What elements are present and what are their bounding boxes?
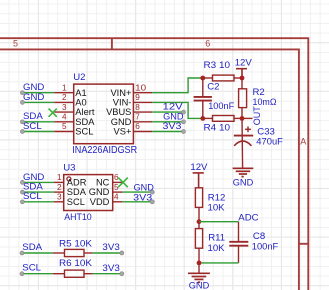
svg-text:R4 10: R4 10 — [204, 122, 231, 133]
U2 pin 9 VIN- — [133, 101, 152, 103]
ic U3 body — [64, 175, 113, 211]
svg-text:R5 10K: R5 10K — [59, 238, 93, 249]
svg-text:100nF: 100nF — [252, 241, 279, 252]
wire U3 left GND — [22, 181, 54, 183]
resistor R12 — [195, 188, 202, 222]
junction node R11 bottom / GND — [197, 261, 202, 266]
resistor R6 row — [22, 273, 53, 275]
svg-text:SDA: SDA — [67, 187, 87, 197]
svg-text:SCL: SCL — [23, 121, 42, 132]
svg-text:A: A — [300, 137, 306, 147]
wire U3 pin5 GND — [122, 191, 152, 193]
svg-text:R6 10K: R6 10K — [59, 258, 93, 269]
U3 pin 6 NC — [113, 181, 123, 183]
svg-text:9: 9 — [135, 93, 140, 102]
svg-text:AHT10: AHT10 — [64, 212, 92, 223]
svg-text:C2: C2 — [207, 82, 219, 93]
svg-text:U3: U3 — [63, 162, 75, 173]
svg-text:1: 1 — [57, 173, 62, 182]
junction node ADC — [197, 219, 202, 224]
wire C8 bottom to R11 bottom — [199, 262, 239, 264]
wire node ADC — [199, 221, 239, 223]
net flag OUT stub — [242, 117, 253, 119]
svg-text:10: 10 — [135, 83, 147, 92]
svg-text:2: 2 — [62, 93, 67, 102]
resistor R2 shunt — [239, 78, 247, 118]
svg-text:A0: A0 — [75, 98, 86, 108]
wire VIN+ pin10 to R3 — [152, 78, 203, 93]
junction node R2 bottom / R4 right / C33 / OUT — [240, 116, 245, 121]
svg-text:12V: 12V — [190, 162, 208, 173]
ground symbol GND (below C33) — [233, 168, 254, 176]
svg-text:4: 4 — [114, 193, 119, 202]
U2 pin 6 VS+ — [133, 131, 152, 133]
svg-text:3V3: 3V3 — [102, 263, 119, 274]
svg-text:3V3: 3V3 — [163, 121, 182, 132]
svg-text:SCL: SCL — [67, 197, 85, 207]
U3 pin 3 SCL — [54, 201, 64, 203]
U2 pin 10 VIN+ — [133, 92, 152, 94]
svg-text:12V: 12V — [235, 58, 253, 69]
svg-text:5: 5 — [114, 183, 119, 192]
wire U2 right 3V3 — [152, 131, 183, 133]
svg-text:6: 6 — [135, 122, 140, 131]
no-connect X on U3 pin 6 NC — [118, 178, 128, 188]
svg-text:VIN-: VIN- — [113, 98, 132, 108]
svg-text:SCL: SCL — [75, 127, 93, 137]
capacitor C8 — [229, 222, 248, 263]
U2 pin 3 Alert — [54, 111, 73, 113]
svg-text:3V3: 3V3 — [102, 242, 119, 253]
no-connect X on U2 pin 3 — [49, 109, 57, 117]
svg-text:OUT: OUT — [252, 106, 263, 125]
svg-text:6: 6 — [205, 39, 210, 49]
svg-text:GND: GND — [233, 177, 254, 188]
svg-text:1: 1 — [62, 83, 67, 92]
U2 pin 5 SCL — [54, 131, 73, 133]
svg-text:8: 8 — [135, 103, 140, 112]
svg-text:GND: GND — [189, 281, 210, 290]
svg-text:100nF: 100nF — [208, 101, 234, 112]
U3 pin 1 ADR — [54, 181, 64, 183]
U2 pin 2 A0 — [54, 101, 73, 103]
svg-text:4: 4 — [62, 113, 67, 122]
U2 pin 8 VBUS — [133, 111, 152, 113]
U3 pin 2 SDA — [54, 191, 64, 193]
ground symbol GND (below R11) — [188, 263, 210, 282]
junction node R4 left / C2 bottom — [200, 116, 205, 121]
wire U3 left SDA — [22, 191, 54, 193]
resistor R4 — [203, 116, 242, 122]
U2 pin 4 SDA — [54, 121, 73, 123]
svg-text:VS+: VS+ — [114, 127, 132, 137]
U2 pin 7 GND — [133, 121, 152, 123]
wire U2 left GND — [22, 101, 54, 103]
svg-text:10K: 10K — [208, 243, 226, 254]
wire U2 left SDA — [22, 121, 54, 123]
U3 pin 4 VDD — [113, 201, 123, 203]
svg-text:GND: GND — [89, 187, 110, 197]
svg-text:ADC: ADC — [238, 212, 258, 223]
U3 pin 5 GND — [113, 191, 123, 193]
svg-text:Alert: Alert — [75, 107, 95, 117]
svg-text:INA226AIDGSR: INA226AIDGSR — [72, 145, 137, 156]
svg-text:VBUS: VBUS — [106, 107, 131, 117]
capacitor C33 polarized — [234, 118, 253, 168]
svg-text:SCL: SCL — [22, 262, 41, 273]
svg-text:SCL: SCL — [23, 191, 42, 202]
wire U2 right 12V — [152, 111, 183, 113]
svg-text:A1: A1 — [75, 88, 86, 98]
svg-text:GND: GND — [111, 117, 132, 127]
junction node R3 left / C2 top — [200, 76, 205, 81]
svg-text:5: 5 — [62, 122, 67, 131]
wire U2 left SCL — [22, 131, 54, 133]
svg-text:7: 7 — [135, 113, 140, 122]
svg-text:ADR: ADR — [67, 178, 87, 188]
U3 pin1 marker bubble — [67, 177, 71, 181]
ic U2 body — [74, 84, 134, 144]
wire U3 left SCL — [22, 201, 54, 203]
junction node 12V / R3 right / R2 top — [240, 76, 245, 81]
resistor R11 — [195, 222, 202, 263]
svg-text:R3 10: R3 10 — [204, 60, 231, 71]
wire U2 left GND — [22, 92, 54, 94]
wire U3 pin4 3V3 — [122, 201, 152, 203]
svg-text:VIN+: VIN+ — [110, 88, 131, 98]
svg-text:U2: U2 — [73, 72, 85, 83]
svg-text:3V3: 3V3 — [133, 192, 152, 203]
wire VIN- pin9 to R4 — [152, 102, 203, 118]
svg-text:470uF: 470uF — [256, 137, 283, 148]
svg-text:3: 3 — [57, 193, 62, 202]
svg-text:10K: 10K — [208, 202, 226, 213]
svg-text:SDA: SDA — [75, 117, 95, 127]
svg-text:2: 2 — [57, 183, 62, 192]
svg-text:SDA: SDA — [22, 242, 42, 253]
capacitor C2 — [194, 78, 212, 118]
svg-text:GND: GND — [23, 92, 44, 103]
U2 pin 1 A1 — [54, 92, 73, 94]
resistor R3 — [203, 75, 242, 81]
svg-text:3: 3 — [62, 103, 67, 112]
svg-text:VDD: VDD — [90, 197, 110, 207]
svg-text:5: 5 — [13, 39, 18, 49]
wire U2 right GND — [152, 121, 183, 123]
resistor R5 row — [22, 252, 53, 254]
svg-text:NC: NC — [96, 178, 110, 188]
